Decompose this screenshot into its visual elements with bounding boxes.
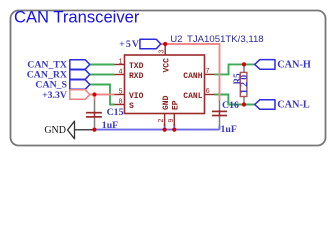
wire C15 top stub (94, 95, 96, 100)
svg-text:1uF: 1uF (102, 120, 118, 131)
hierarchical label CAN_RX (70, 70, 90, 80)
svg-text:120: 120 (239, 75, 250, 94)
svg-text:8: 8 (119, 98, 123, 105)
hierarchical label CAN_TX (70, 60, 90, 70)
wire GND symbol to junction (75, 129, 95, 131)
svg-text:+5V: +5V (119, 39, 140, 50)
svg-text:C15: C15 (107, 107, 124, 118)
svg-text:6: 6 (206, 88, 210, 95)
svg-text:S: S (129, 102, 134, 111)
hierarchical label CAN-L (255, 100, 275, 110)
wire CANL net (215, 95, 255, 105)
wire CAN_RX net (90, 74, 115, 76)
junction dot +5V/VCC (163, 42, 167, 46)
svg-text:RXD: RXD (129, 72, 144, 81)
svg-text:TXD: TXD (129, 62, 144, 71)
svg-text:VCC: VCC (162, 58, 171, 73)
svg-text:4: 4 (119, 68, 123, 75)
junction dot GND/C15 (92, 128, 96, 132)
pin 3 VCC (164, 45, 166, 56)
svg-text:VIO: VIO (129, 92, 144, 101)
pin 1 TXD (115, 64, 125, 66)
junction dot CANH/R5 (242, 62, 246, 66)
svg-text:CANL: CANL (183, 92, 202, 101)
hierarchical label CAN_S (70, 80, 90, 90)
svg-text:+3.3V: +3.3V (42, 90, 67, 101)
hierarchical label CAN-H (255, 60, 275, 70)
IC U2 TJA1051TK/3,118 body (125, 55, 205, 114)
ground symbol GND (68, 121, 75, 139)
pin 8 S (115, 104, 125, 106)
svg-text:GND: GND (162, 95, 171, 110)
pin 5 VIO (115, 94, 125, 96)
svg-text:CAN-L: CAN-L (277, 100, 310, 111)
svg-text:3: 3 (159, 50, 166, 54)
svg-text:CAN Transceiver: CAN Transceiver (14, 7, 140, 26)
svg-text:9: 9 (168, 119, 175, 123)
pin 6 CANL (205, 94, 215, 96)
junction dot +3.3V/C15 (92, 92, 96, 96)
pin 7 CANH (205, 73, 215, 75)
junction dot CANL/R5 (242, 102, 246, 106)
pin 9 EP (173, 114, 175, 127)
pin 4 RXD (115, 74, 125, 76)
capacitor C15 (86, 100, 102, 129)
svg-text:1: 1 (119, 58, 123, 65)
wire +5V net (161, 44, 220, 101)
svg-text:2: 2 (158, 119, 165, 123)
wire CANH net (215, 64, 255, 74)
resistor R5 (240, 66, 247, 103)
svg-text:7: 7 (206, 68, 210, 75)
pin 2 GND (164, 114, 166, 127)
svg-text:C16: C16 (222, 100, 239, 111)
junction dot EP pin9 (172, 128, 176, 132)
wire +3.3V net (90, 94, 115, 96)
wire GND rail blue (94, 124, 219, 130)
power label +3.3V (70, 90, 90, 100)
wire CAN_TX net (90, 64, 115, 66)
svg-text:GND: GND (44, 125, 66, 136)
svg-text:CAN-H: CAN-H (277, 60, 311, 71)
svg-text:EP: EP (172, 100, 181, 110)
svg-text:CANH: CANH (183, 72, 202, 81)
svg-text:TJA1051TK/3,118: TJA1051TK/3,118 (187, 34, 264, 45)
power label +5V (140, 39, 161, 49)
svg-text:5: 5 (119, 88, 123, 95)
svg-text:U2: U2 (170, 34, 182, 45)
junction dot GND pin2 (163, 128, 167, 132)
wire CAN_S net (90, 85, 115, 105)
svg-text:1uF: 1uF (221, 124, 237, 135)
capacitor C16 (212, 101, 227, 126)
